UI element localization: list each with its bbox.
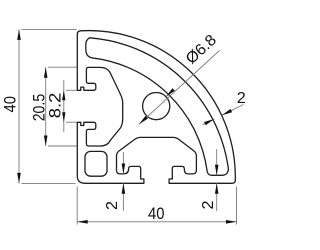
extension line top for 8.2 [66,89,77,91]
dim 2 right upper arrow pointing down [216,149,218,175]
leader line Ø6.8 with arrows [139,51,220,125]
center bore circle Ø6.8 [143,93,170,120]
svg-text:40: 40 [148,204,165,223]
extension line right for bottom 40 [236,187,238,225]
dim 2 bottom lower arrow pointing up [122,183,124,211]
svg-text:2: 2 [104,201,121,210]
dimension line 20.5 with arrows [45,67,47,146]
svg-text:Ø6.8: Ø6.8 [183,32,220,68]
svg-text:8.2: 8.2 [46,93,64,119]
profile outer contour with left T-slot and bottom T-slot [77,31,235,184]
extension line bottom for 20.5 [48,145,77,147]
dimension line 8.2 with arrows outside [63,80,65,132]
dimension line 40 bottom with arrows [77,221,236,223]
svg-text:2: 2 [200,201,217,210]
extension line bottom for left 40 [22,182,76,184]
extension line top for 20.5 [48,66,77,68]
dimension line 40 left with arrows [18,29,20,183]
corner square cavity [85,151,107,176]
dim 2 wall leader from text with arrow at outer arc [222,105,244,116]
dim 2 bottom upper arrow pointing down [122,152,124,174]
dim 2 right lower arrow pointing up [216,183,218,211]
extension line bottom for 8.2 [66,121,77,123]
dim 2 wall second arrow at inner arc [203,119,215,125]
extension line top for left 40 [22,28,77,30]
svg-text:40: 40 [1,96,20,113]
extension line left for bottom 40 [76,187,78,225]
svg-text:2: 2 [237,90,246,107]
curved internal cavity (banana slot) behind outer wall [86,38,229,176]
